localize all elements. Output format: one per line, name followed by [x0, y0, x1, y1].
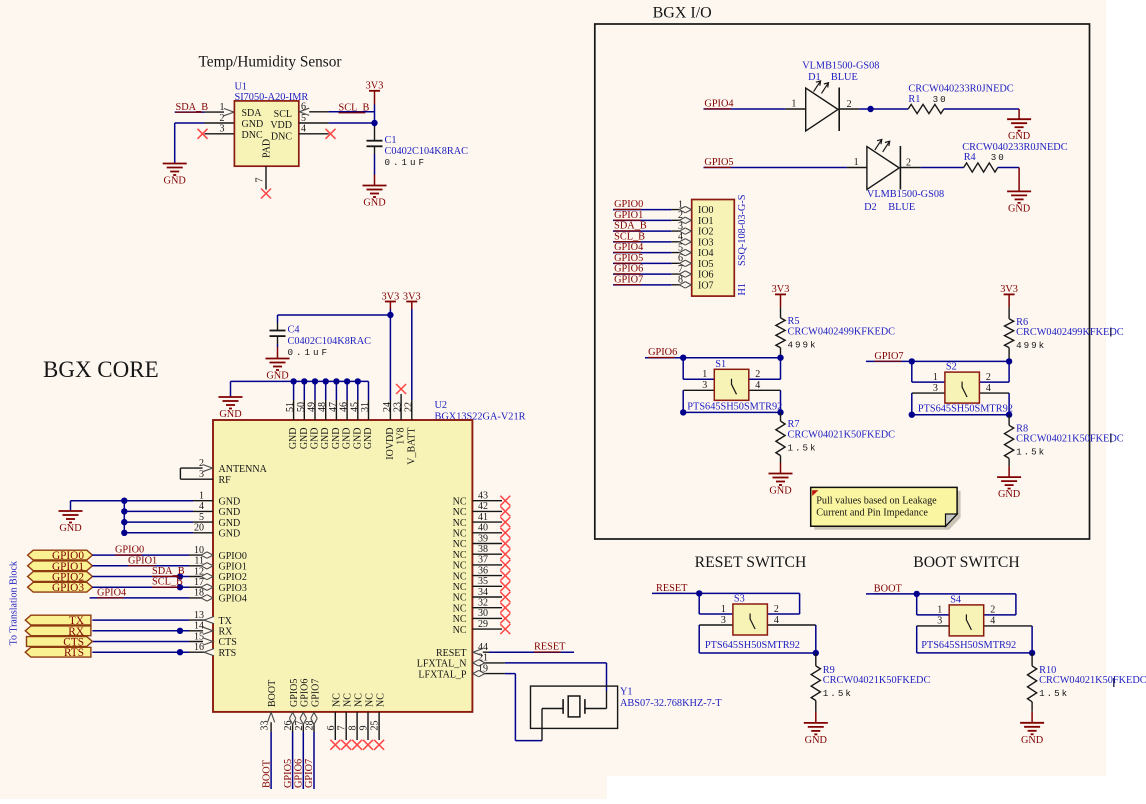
- svg-text:31: 31: [360, 402, 371, 412]
- svg-text:34: 34: [478, 587, 488, 598]
- svg-text:GPIO7: GPIO7: [614, 274, 643, 285]
- wire GND pin drop 5: [335, 381, 337, 400]
- svg-text:IO7: IO7: [698, 280, 714, 291]
- svg-text:CRCW04021K50FKEDC: CRCW04021K50FKEDC: [788, 430, 896, 441]
- svg-text:GND: GND: [1008, 203, 1031, 214]
- svg-text:13: 13: [194, 610, 204, 621]
- svg-text:GPIO5: GPIO5: [614, 253, 643, 264]
- U2 bottom pin 28 GPIO7: [313, 712, 315, 732]
- U2 bottom pin 9 NC no-connect: [367, 712, 369, 740]
- port CTS: [27, 637, 93, 647]
- svg-text:RESET: RESET: [534, 642, 566, 653]
- svg-text:GPIO7: GPIO7: [310, 679, 321, 707]
- svg-text:NC: NC: [453, 561, 467, 572]
- svg-text:VLMB1500-GS08: VLMB1500-GS08: [867, 189, 944, 200]
- svg-text:GND: GND: [242, 119, 264, 130]
- H1 pin 7 IO6 net GPIO6: [613, 273, 672, 275]
- U1 pin 2: [205, 122, 235, 124]
- U2 bottom pin 8 NC no-connect: [356, 712, 358, 740]
- junction at 3V3/C1: [371, 120, 377, 126]
- screenshot artifact vertical bars at right edge: [1110, 328, 1112, 337]
- svg-text:NC: NC: [453, 593, 467, 604]
- svg-text:GND: GND: [363, 198, 386, 209]
- port GPIO3: [28, 582, 93, 592]
- svg-text:GPIO5: GPIO5: [289, 679, 300, 707]
- wire VDD to 3V3 rail: [329, 122, 375, 124]
- svg-text:Y1: Y1: [620, 687, 633, 698]
- svg-text:NC: NC: [453, 496, 467, 507]
- wire R1 to ground: [944, 108, 1019, 110]
- svg-text:GND: GND: [219, 496, 241, 507]
- svg-text:2: 2: [986, 372, 991, 383]
- U2 right pin 44 RESET: [472, 651, 489, 653]
- svg-text:CRCW04021K50FKEDC: CRCW04021K50FKEDC: [1016, 434, 1124, 445]
- svg-text:NC: NC: [453, 507, 467, 518]
- svg-text:NC: NC: [332, 693, 343, 707]
- U2 pin 2 ANTENNA and pin 3 RF loop: [180, 467, 213, 469]
- svg-text:U1: U1: [235, 82, 248, 93]
- svg-text:BOOT: BOOT: [874, 584, 903, 595]
- svg-text:4: 4: [199, 501, 204, 512]
- U2 top pin 46 GND: [346, 400, 348, 420]
- svg-text:BOOT: BOOT: [267, 680, 278, 707]
- svg-text:4: 4: [301, 124, 306, 135]
- svg-text:GND: GND: [342, 428, 353, 450]
- U1 pin 7 PAD no-connect: [265, 166, 267, 189]
- wire LFXTAL_N to crystal: [505, 662, 607, 664]
- svg-text:1.5k: 1.5k: [1016, 447, 1046, 458]
- wire GPIO0: [92, 554, 189, 556]
- header H1 SSQ-108-03-G-S: [692, 200, 735, 297]
- svg-text:Pull values based on Leakage: Pull values based on Leakage: [816, 495, 937, 506]
- ground at C4: [266, 359, 290, 371]
- U2 left pin 18 GPIO4: [189, 597, 213, 599]
- svg-text:NC: NC: [453, 518, 467, 529]
- svg-text:U2: U2: [435, 400, 448, 411]
- svg-text:SSQ-108-03-G-S: SSQ-108-03-G-S: [737, 194, 748, 266]
- U2 bottom pin 6 NC no-connect: [334, 712, 336, 740]
- capacitor C1 C0402C104K8RAC 0.1uF: [367, 140, 383, 142]
- wire GND pin drop 6: [346, 381, 348, 400]
- wire GPIO5 down: [292, 732, 294, 789]
- wire GPIO7 net: [866, 360, 1009, 362]
- svg-text:GND: GND: [805, 735, 828, 746]
- ground below R7: [769, 474, 793, 486]
- ground below R8: [997, 477, 1021, 489]
- U2 right pin 34 NC no-connect: [472, 596, 502, 598]
- ground below R9: [804, 723, 828, 735]
- svg-text:GND: GND: [769, 486, 792, 497]
- switch S4 PTS645SH50SMTR92: [917, 625, 950, 627]
- port RTS: [25, 647, 91, 657]
- wire C4 top to 3V3 rail: [277, 315, 279, 323]
- svg-text:VDD: VDD: [270, 120, 292, 131]
- svg-text:SCL_B: SCL_B: [152, 577, 183, 588]
- ground at R4: [1007, 191, 1031, 203]
- svg-text:NC: NC: [453, 582, 467, 593]
- svg-text:GND: GND: [164, 176, 187, 187]
- U2 left pin 12 GPIO2: [189, 576, 213, 578]
- crystal Y1 ABS07-32.768KHZ-7-T: [531, 686, 618, 728]
- svg-text:45: 45: [349, 402, 360, 412]
- svg-text:22: 22: [403, 402, 414, 412]
- svg-text:S3: S3: [734, 594, 745, 605]
- svg-text:TX: TX: [219, 616, 233, 627]
- svg-text:R1: R1: [908, 94, 920, 105]
- svg-text:IO1: IO1: [698, 216, 714, 227]
- wire GPIO2 / SDA_B: [92, 576, 189, 578]
- U2 left pin 10 GPIO0: [189, 554, 213, 556]
- svg-text:GPIO4: GPIO4: [614, 242, 643, 253]
- U1 pin 3 DNC no-connect: [205, 133, 235, 135]
- svg-text:0.1uF: 0.1uF: [288, 347, 331, 358]
- U2 right pin 43 NC no-connect: [472, 500, 502, 502]
- wire GPIO6 down: [302, 732, 304, 789]
- svg-text:SCL_B: SCL_B: [339, 102, 370, 113]
- svg-text:BLUE: BLUE: [831, 72, 858, 83]
- svg-text:LFXTAL_N: LFXTAL_N: [417, 659, 467, 670]
- svg-text:R5: R5: [788, 316, 800, 327]
- svg-text:IOVDD: IOVDD: [385, 428, 396, 460]
- resistor R10 CRCW04021K50FKEDC 1.5k: [1031, 653, 1033, 666]
- svg-text:IO2: IO2: [698, 227, 714, 238]
- svg-text:4: 4: [990, 616, 995, 627]
- svg-text:ANTENNA: ANTENNA: [219, 464, 268, 475]
- resistor R9 CRCW04021K50FKEDC 1.5k: [815, 653, 817, 666]
- svg-text:49: 49: [307, 402, 318, 412]
- svg-text:1V8: 1V8: [396, 428, 407, 445]
- svg-text:DNC: DNC: [242, 130, 263, 141]
- ground below R10: [1020, 723, 1044, 735]
- svg-text:GPIO3: GPIO3: [52, 582, 84, 594]
- U2 top pin 24 IOVDD: [389, 400, 391, 420]
- U2 right pin 32 NC no-connect: [472, 607, 502, 609]
- U2 left pin 17 GPIO3: [189, 586, 213, 588]
- U2 bottom pin 7 NC no-connect: [345, 712, 347, 740]
- svg-text:GPIO0: GPIO0: [115, 545, 144, 556]
- wire R7 to ground: [780, 456, 782, 463]
- svg-text:1: 1: [933, 372, 938, 383]
- U2 top pin 50 GND: [303, 400, 305, 420]
- svg-text:GPIO7: GPIO7: [304, 759, 315, 788]
- U2 right pin 41 NC no-connect: [472, 521, 502, 523]
- wire BOOT to switch S4: [866, 593, 917, 595]
- svg-text:GPIO6: GPIO6: [300, 679, 311, 707]
- svg-text:NC: NC: [364, 693, 375, 707]
- svg-text:1.5k: 1.5k: [788, 443, 818, 454]
- svg-text:C4: C4: [288, 325, 300, 336]
- U2 right pin 30 NC no-connect: [472, 617, 502, 619]
- svg-text:GND: GND: [352, 428, 363, 450]
- svg-text:7: 7: [255, 178, 266, 183]
- svg-text:GPIO7: GPIO7: [874, 351, 903, 362]
- svg-text:SCL_B: SCL_B: [614, 231, 645, 242]
- svg-text:50: 50: [296, 402, 307, 412]
- svg-text:4: 4: [755, 380, 760, 391]
- svg-text:38: 38: [478, 544, 488, 555]
- svg-text:GND: GND: [331, 428, 342, 450]
- no-connect X on pin 23 1V8: [400, 394, 402, 400]
- svg-text:NC: NC: [343, 693, 354, 707]
- svg-text:29: 29: [478, 619, 488, 630]
- svg-text:3: 3: [220, 124, 225, 135]
- wire GPIO1: [92, 565, 189, 567]
- U1 pin 5 VDD: [299, 122, 329, 124]
- wire RESET net: [489, 651, 574, 653]
- svg-text:1: 1: [220, 102, 225, 113]
- svg-text:GND: GND: [1021, 735, 1044, 746]
- svg-text:GND: GND: [219, 507, 241, 518]
- svg-text:GND: GND: [998, 489, 1021, 500]
- port GPIO1: [28, 561, 93, 571]
- svg-text:1.5k: 1.5k: [1039, 688, 1069, 699]
- svg-text:R7: R7: [788, 419, 800, 430]
- port GPIO2: [28, 572, 93, 582]
- port TX: [25, 615, 91, 625]
- wire SDA_B to U1 pin 1: [175, 111, 205, 113]
- svg-text:GPIO4: GPIO4: [704, 99, 733, 110]
- svg-text:LFXTAL_P: LFXTAL_P: [418, 669, 467, 680]
- svg-text:42: 42: [478, 501, 488, 512]
- svg-text:25: 25: [370, 721, 381, 731]
- svg-text:1: 1: [854, 157, 859, 168]
- svg-text:GPIO0: GPIO0: [219, 551, 247, 562]
- svg-text:37: 37: [478, 555, 488, 566]
- svg-text:41: 41: [478, 512, 488, 523]
- wire R9 to ground: [815, 701, 817, 712]
- svg-text:4: 4: [986, 383, 991, 394]
- svg-text:3: 3: [721, 615, 726, 626]
- svg-text:15: 15: [194, 631, 204, 642]
- svg-text:20: 20: [194, 523, 204, 534]
- U2 right pin 36 NC no-connect: [472, 575, 502, 577]
- svg-text:SDA_B: SDA_B: [152, 566, 185, 577]
- U2 top pin 47 GND: [335, 400, 337, 420]
- U2 right pin 29 NC no-connect: [472, 628, 502, 630]
- BGX I/O section border: [595, 24, 1090, 539]
- svg-text:GND: GND: [288, 428, 299, 450]
- svg-text:23: 23: [393, 402, 404, 412]
- svg-text:32: 32: [478, 598, 488, 609]
- svg-text:43: 43: [478, 491, 488, 502]
- wire SCL_B from U1 pin 6: [329, 111, 375, 113]
- svg-text:PTS645SH50SMTR92: PTS645SH50SMTR92: [918, 404, 1013, 415]
- wire GND pin drop 8: [368, 381, 370, 400]
- U2 right pin 19 LFXTAL_P: [472, 673, 505, 675]
- U2 right pin 39 NC no-connect: [472, 543, 502, 545]
- svg-text:GND: GND: [219, 409, 242, 420]
- U2 bottom pin 26 GPIO5: [292, 712, 294, 732]
- H1 pin 1 IO0 net GPIO0: [613, 209, 672, 211]
- svg-text:Temp/Humidity Sensor: Temp/Humidity Sensor: [199, 54, 342, 71]
- svg-text:RTS: RTS: [64, 647, 84, 659]
- U2 top pin 23 1V8: [400, 400, 402, 420]
- svg-text:NC: NC: [453, 614, 467, 625]
- svg-text:39: 39: [478, 533, 488, 544]
- svg-text:CRCW0402499KFKEDC: CRCW0402499KFKEDC: [1016, 327, 1124, 338]
- svg-text:RESET SWITCH: RESET SWITCH: [695, 554, 807, 571]
- svg-text:R6: R6: [1016, 317, 1028, 328]
- resistor R5 CRCW0402499KFKEDC 499k: [776, 318, 785, 348]
- wire GND pin drop 1: [293, 381, 295, 400]
- svg-text:NC: NC: [453, 603, 467, 614]
- svg-text:GPIO3: GPIO3: [219, 583, 247, 594]
- U2 top pin 48 GND: [325, 400, 327, 420]
- wire GPIO3 / SCL_B: [92, 586, 189, 588]
- svg-text:CRCW04021K50FKEDC: CRCW04021K50FKEDC: [823, 675, 931, 686]
- U2 left pin 16 RTS: [92, 651, 189, 653]
- svg-text:RTS: RTS: [219, 648, 237, 659]
- svg-text:48: 48: [317, 402, 328, 412]
- svg-text:GPIO1: GPIO1: [614, 210, 643, 221]
- U2 left pin 15 CTS: [92, 641, 189, 643]
- svg-text:CRCW040233R0JNEDC: CRCW040233R0JNEDC: [962, 142, 1067, 153]
- svg-text:CRCW040233R0JNEDC: CRCW040233R0JNEDC: [908, 84, 1013, 95]
- svg-text:BLUE: BLUE: [888, 202, 915, 213]
- H1 pin 4 IO3 net SCL_B: [613, 241, 672, 243]
- svg-text:GND: GND: [266, 371, 289, 382]
- svg-text:IO0: IO0: [698, 205, 714, 216]
- svg-text:GND: GND: [219, 529, 241, 540]
- svg-text:GPIO4: GPIO4: [219, 594, 247, 605]
- svg-text:1: 1: [721, 604, 726, 615]
- U2 right pin 40 NC no-connect: [472, 532, 502, 534]
- U2 bottom pin 27 GPIO6: [302, 712, 304, 732]
- svg-text:NC: NC: [453, 625, 467, 636]
- svg-text:RESET: RESET: [656, 583, 688, 594]
- svg-text:PTS645SH50SMTR92: PTS645SH50SMTR92: [705, 640, 800, 651]
- svg-text:6: 6: [326, 726, 337, 731]
- switch S2 PTS645SH50SMTR92: [911, 361, 913, 382]
- svg-text:Current and Pin Impedance: Current and Pin Impedance: [816, 507, 928, 518]
- wire R8 to ground: [1008, 458, 1010, 466]
- svg-text:1: 1: [199, 491, 204, 502]
- U2 left pin 11 GPIO1: [189, 565, 213, 567]
- svg-text:1: 1: [937, 605, 942, 616]
- wire BOOT down: [270, 732, 272, 789]
- svg-text:C1: C1: [385, 135, 397, 146]
- wire C4 to ground: [277, 336, 279, 344]
- wire RESET to switch S3: [652, 592, 699, 594]
- svg-text:SCL: SCL: [274, 109, 292, 120]
- U1 pin 6 SCL: [299, 111, 329, 113]
- U2 left pin 13 TX: [92, 619, 189, 621]
- svg-text:IO5: IO5: [698, 259, 714, 270]
- svg-text:1: 1: [791, 99, 796, 110]
- svg-text:CTS: CTS: [219, 637, 237, 648]
- svg-text:GPIO4: GPIO4: [97, 587, 126, 598]
- svg-text:1: 1: [702, 369, 707, 380]
- wire C1 to ground: [374, 146, 376, 154]
- wire GPIO7 down: [313, 732, 315, 789]
- wire GND pin drop 3: [314, 381, 316, 400]
- svg-text:GPIO6: GPIO6: [648, 347, 677, 358]
- resistor R6 CRCW0402499KFKEDC 499k: [1005, 319, 1014, 348]
- svg-text:BGX CORE: BGX CORE: [43, 357, 159, 382]
- svg-text:IO4: IO4: [698, 248, 714, 259]
- port RX: [25, 626, 91, 636]
- U1 pin 1 SDA: [205, 111, 235, 113]
- svg-text:BOOT: BOOT: [261, 759, 272, 788]
- svg-text:NC: NC: [453, 550, 467, 561]
- svg-text:RF: RF: [219, 475, 232, 486]
- svg-text:499k: 499k: [1016, 340, 1046, 351]
- wire R4 to ground: [998, 167, 1019, 169]
- wire GPIO6 net: [645, 357, 781, 359]
- svg-text:30: 30: [991, 152, 1006, 163]
- wire U2 GND pins 1/4/5/20 bus: [124, 500, 193, 502]
- capacitor C4 C0402C104K8RAC 0.1uF: [270, 330, 286, 332]
- U2 top pin 31 GND: [368, 400, 370, 420]
- svg-text:36: 36: [478, 565, 488, 576]
- svg-text:H1: H1: [737, 283, 748, 296]
- junction 3V3/C4: [387, 312, 393, 318]
- svg-text:S2: S2: [946, 362, 957, 373]
- U2 right pin 38 NC no-connect: [472, 553, 502, 555]
- svg-text:DNC: DNC: [271, 132, 292, 143]
- ground bus for U2 top GND pins: [231, 380, 369, 382]
- svg-text:IO6: IO6: [698, 270, 714, 281]
- svg-text:NC: NC: [453, 539, 467, 550]
- U2 top pin 45 GND: [357, 400, 359, 420]
- switch S1 PTS645SH50SMTR92: [682, 358, 684, 380]
- svg-text:4: 4: [774, 615, 779, 626]
- svg-text:46: 46: [339, 402, 350, 412]
- svg-text:2: 2: [774, 604, 779, 615]
- svg-text:GND: GND: [320, 428, 331, 450]
- svg-text:24: 24: [382, 402, 393, 412]
- svg-text:0.1uF: 0.1uF: [385, 157, 428, 168]
- ground at C1: [363, 186, 387, 198]
- wire 3V3 to C1: [374, 105, 376, 127]
- U2 right pin 42 NC no-connect: [472, 510, 502, 512]
- svg-text:GPIO6: GPIO6: [614, 264, 643, 275]
- U2 left pin 14 RX: [92, 630, 189, 632]
- svg-text:14: 14: [194, 621, 204, 632]
- svg-text:PAD: PAD: [262, 139, 273, 158]
- U2 top pin 22 V_BATT: [411, 400, 413, 420]
- svg-text:CRCW0402499KFKEDC: CRCW0402499KFKEDC: [788, 326, 896, 337]
- U2 top pin 49 GND: [314, 400, 316, 420]
- svg-text:1.5k: 1.5k: [823, 688, 853, 699]
- svg-text:NC: NC: [353, 693, 364, 707]
- wire GND pin drop 2: [303, 381, 305, 400]
- svg-text:3: 3: [933, 383, 938, 394]
- svg-text:VLMB1500-GS08: VLMB1500-GS08: [802, 61, 879, 72]
- svg-text:2: 2: [755, 369, 760, 380]
- svg-text:GPIO6: GPIO6: [294, 759, 305, 788]
- ground at R1: [1007, 119, 1031, 131]
- svg-text:GPIO1: GPIO1: [128, 555, 157, 566]
- svg-text:40: 40: [478, 523, 488, 534]
- svg-text:8: 8: [348, 726, 359, 731]
- U2 right pin 37 NC no-connect: [472, 564, 502, 566]
- H1 pin 6 IO5 net GPIO5: [613, 262, 672, 264]
- svg-text:CRCW04021K50FKEDC: CRCW04021K50FKEDC: [1039, 675, 1146, 686]
- svg-text:2: 2: [906, 157, 911, 168]
- H1 pin 3 IO2 net SDA_B: [613, 230, 672, 232]
- svg-text:GPIO0: GPIO0: [614, 199, 643, 210]
- svg-text:16: 16: [194, 642, 204, 653]
- svg-text:C0402C104K8RAC: C0402C104K8RAC: [385, 146, 469, 157]
- resistor R8 CRCW04021K50FKEDC 1.5k: [1008, 415, 1010, 426]
- svg-text:GND: GND: [219, 518, 241, 529]
- svg-text:2: 2: [220, 113, 225, 124]
- U2 right pin 35 NC no-connect: [472, 585, 502, 587]
- U2 right pin 21 LFXTAL_N: [472, 662, 505, 664]
- svg-text:GPIO5: GPIO5: [283, 759, 294, 788]
- svg-text:C0402C104K8RAC: C0402C104K8RAC: [288, 336, 372, 347]
